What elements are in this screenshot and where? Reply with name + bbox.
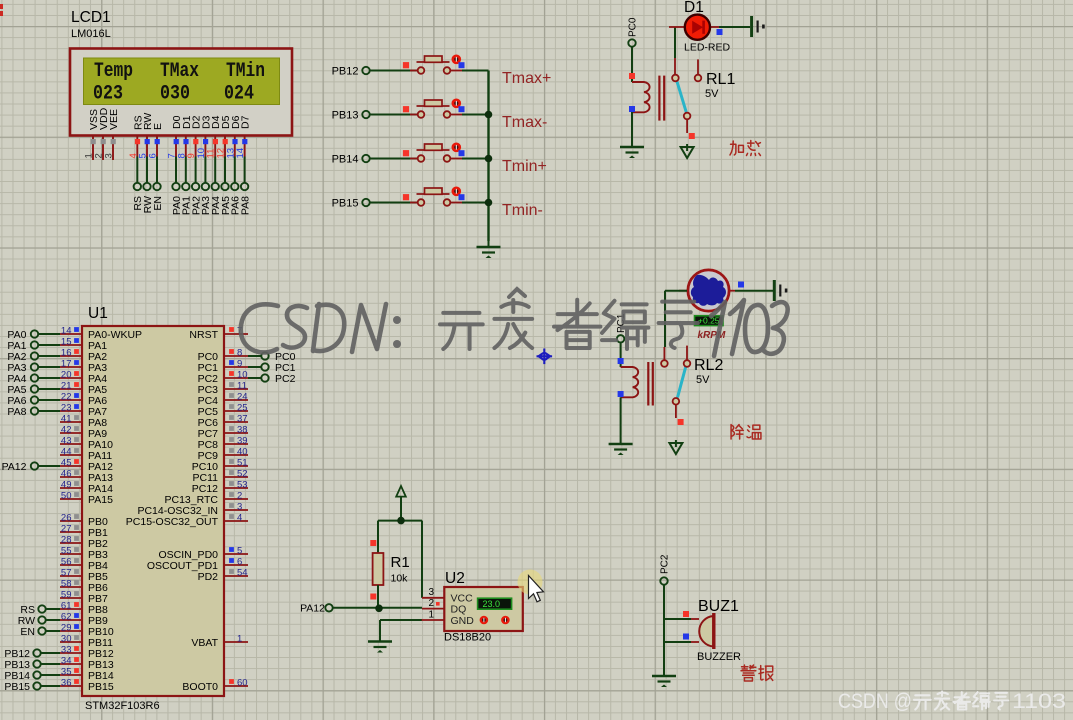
svg-text:24: 24	[237, 392, 248, 403]
svg-text:2: 2	[428, 598, 434, 609]
U1 pin 52 PC11 (right)	[193, 469, 249, 484]
motor rpm display	[695, 316, 724, 326]
svg-text:25: 25	[237, 403, 248, 414]
U1 pin 27 PB1 (left)	[60, 524, 108, 539]
U1 pin 51 PC10 (right)	[192, 458, 248, 473]
U1 pin 45 PA12 (left)	[60, 458, 113, 473]
origin marker	[537, 349, 553, 365]
svg-text:22: 22	[61, 392, 72, 403]
svg-text:030: 030	[160, 83, 190, 106]
svg-text:PD2: PD2	[198, 571, 219, 583]
U1 pin 5 OSCIN_PD0 (right)	[158, 546, 248, 561]
terminal PB15	[4, 681, 60, 693]
LCD pin 8 D1	[176, 115, 193, 215]
svg-text:PA8: PA8	[7, 406, 26, 418]
svg-text:57: 57	[61, 568, 72, 579]
ground (buttons)	[477, 241, 501, 258]
terminal PA6	[7, 395, 60, 407]
svg-text:3: 3	[104, 153, 115, 158]
svg-text:PC2: PC2	[275, 373, 296, 385]
U1 pin 3 PC14-OSC32_IN (right)	[137, 502, 248, 517]
wire to U2 VCC	[421, 521, 423, 598]
svg-text:46: 46	[61, 469, 72, 480]
LCD pin 2 VDD	[94, 107, 111, 160]
U1 pin 15 PA1 (left)	[60, 337, 107, 352]
LCD LCD1 LM016L body	[70, 49, 292, 136]
wire motor right to power	[735, 290, 773, 292]
label jiang-wen (cooling)	[731, 425, 743, 439]
U1 pin 21 PA5 (left)	[60, 381, 107, 396]
U1 pin 23 PA7 (left)	[60, 403, 107, 418]
svg-text:4: 4	[237, 513, 242, 524]
svg-text:Tmin+: Tmin+	[502, 158, 547, 175]
terminal PC0 (right of U1)	[248, 351, 296, 363]
push button PB14 (Tmin+)	[332, 143, 489, 166]
svg-text:DS18B20: DS18B20	[444, 632, 491, 644]
U1 pin 33 PB12 (left)	[60, 645, 114, 660]
svg-text:2: 2	[237, 491, 242, 502]
svg-text:5V: 5V	[696, 374, 710, 386]
left edge pin marks	[0, 4, 3, 9]
power rail (motor)	[774, 280, 787, 301]
svg-text:RL2: RL2	[694, 357, 723, 374]
LCD pin 12 D5	[216, 115, 233, 215]
svg-text:61: 61	[61, 601, 72, 612]
svg-text:56: 56	[61, 557, 72, 568]
LCD screen	[84, 58, 280, 105]
svg-text:TMin: TMin	[226, 60, 265, 83]
terminal PA12	[2, 461, 60, 473]
output arrow (RL1, heater)	[681, 144, 694, 158]
U1 pin 34 PB13 (left)	[60, 656, 114, 671]
svg-text:1: 1	[237, 634, 242, 645]
svg-text:8: 8	[237, 348, 242, 359]
svg-text:PA8: PA8	[239, 196, 251, 215]
U1 pin 22 PA6 (left)	[60, 392, 107, 407]
svg-text:BUZ1: BUZ1	[698, 598, 739, 615]
watermark CSDN handwriting	[241, 289, 788, 356]
U1 pin 16 PA2 (left)	[60, 348, 107, 363]
svg-text:kRPM: kRPM	[698, 330, 726, 341]
svg-text:27: 27	[61, 524, 72, 535]
svg-text:+0.25: +0.25	[698, 316, 720, 326]
svg-text:1103: 1103	[1012, 690, 1066, 713]
LCD pin 13 D6	[225, 115, 242, 215]
svg-text:45: 45	[61, 458, 72, 469]
svg-text:52: 52	[237, 469, 248, 480]
U1 pin 4 PC15-OSC32_OUT (right)	[126, 513, 248, 528]
svg-text:5: 5	[237, 546, 242, 557]
U1 pin 20 PA4 (left)	[60, 370, 107, 385]
junction node Tmin-	[485, 199, 493, 207]
svg-text:38: 38	[237, 425, 248, 436]
svg-text:62: 62	[61, 612, 72, 623]
svg-text:U2: U2	[445, 570, 465, 587]
U1 pin 30 PB11 (left)	[60, 634, 113, 649]
LCD pin 14 D7	[235, 115, 252, 215]
svg-text:15: 15	[61, 337, 72, 348]
label jia-re (heating)	[730, 141, 743, 155]
button common bus wire	[487, 71, 489, 242]
mouse cursor	[529, 576, 544, 602]
svg-text:14: 14	[61, 326, 72, 337]
terminal PA8	[7, 406, 60, 418]
U1 pin 25 PC5 (right)	[198, 403, 248, 418]
ground (U2)	[368, 636, 392, 653]
power arrow (pull-up supply)	[396, 486, 406, 521]
svg-text:35: 35	[61, 667, 72, 678]
svg-text:U1: U1	[88, 305, 108, 322]
LCD pin 4 RS	[128, 115, 145, 210]
svg-text:Tmin-: Tmin-	[502, 202, 543, 219]
svg-text:5V: 5V	[705, 88, 719, 100]
terminal PA5	[7, 384, 60, 396]
motor (fan)	[679, 270, 735, 311]
svg-text:28: 28	[61, 535, 72, 546]
wire motor left to RL2	[665, 290, 687, 292]
push button PB13 (Tmax-)	[332, 99, 489, 122]
U1 pin 36 PB15 (left)	[60, 678, 114, 693]
power rail (D1)	[752, 16, 765, 37]
svg-text:29: 29	[61, 623, 72, 634]
svg-text:11: 11	[237, 381, 247, 392]
push button PB15 (Tmin-)	[332, 187, 489, 210]
svg-text:26: 26	[61, 513, 72, 524]
svg-text:37: 37	[237, 414, 248, 425]
svg-text:10: 10	[237, 370, 248, 381]
svg-text:E: E	[152, 123, 164, 130]
svg-text:LCD1: LCD1	[71, 9, 111, 26]
junction node (R1/DQ)	[375, 605, 383, 613]
LCD pin 10 D3	[196, 115, 213, 215]
svg-text:LM016L: LM016L	[71, 28, 111, 40]
svg-text:3: 3	[237, 502, 242, 513]
svg-text:RL1: RL1	[706, 71, 735, 88]
terminal PC2 (right of U1)	[248, 373, 296, 385]
terminal PB14	[4, 670, 60, 682]
U1 pin 7 NRST (right)	[189, 326, 248, 341]
terminal PB13	[4, 659, 60, 671]
LCD pin 1 VSS	[84, 109, 101, 160]
svg-text:PB14: PB14	[332, 154, 359, 166]
svg-text:44: 44	[61, 447, 72, 458]
terminal EN	[20, 626, 60, 638]
push button PB12 (Tmax+)	[332, 55, 489, 78]
svg-text:DQ: DQ	[451, 604, 467, 616]
svg-text:16: 16	[61, 348, 72, 359]
svg-text:PA15: PA15	[88, 494, 113, 506]
wire LED to power	[719, 26, 750, 28]
svg-text:023: 023	[93, 83, 123, 106]
U1 pin 14 PA0-WKUP (left)	[60, 326, 142, 341]
buzzer BUZ1	[664, 611, 714, 649]
svg-text:EN: EN	[20, 626, 35, 638]
svg-text:PB12: PB12	[332, 66, 359, 78]
U1 pin 50 PA15 (left)	[60, 491, 113, 506]
svg-text:PB15: PB15	[88, 681, 114, 693]
svg-text:R1: R1	[391, 554, 410, 571]
terminal PC1 (RL2 coil)	[616, 313, 627, 342]
terminal PA3	[7, 362, 60, 374]
svg-text:21: 21	[61, 381, 72, 392]
relay RL2 switch	[661, 346, 690, 425]
svg-text:9: 9	[237, 359, 242, 370]
svg-text:30: 30	[61, 634, 72, 645]
svg-text:59: 59	[61, 590, 72, 601]
op-chip U1 STM32F103R6 body	[82, 326, 224, 696]
svg-text:D7: D7	[240, 115, 252, 129]
U1 pin 1 VBAT (right)	[191, 634, 248, 649]
relay RL1 coil	[629, 47, 664, 141]
U1 pin 43 PA10 (left)	[60, 436, 113, 451]
svg-text:STM32F103R6: STM32F103R6	[85, 700, 160, 712]
U1 pin 37 PC6 (right)	[198, 414, 248, 429]
terminal RS	[20, 604, 60, 616]
terminal PA1	[7, 340, 60, 352]
U1 pin 61 PB8 (left)	[60, 601, 108, 616]
svg-text:BOOT0: BOOT0	[182, 681, 218, 693]
svg-text:3: 3	[428, 587, 434, 598]
terminal PC1 (right of U1)	[248, 362, 296, 374]
svg-text:NRST: NRST	[189, 329, 218, 341]
svg-text:Temp: Temp	[94, 60, 133, 83]
svg-text:PA12: PA12	[2, 461, 27, 473]
U1 pin 9 PC1 (right)	[198, 359, 248, 374]
ground (RL2 coil)	[609, 438, 633, 455]
svg-text:GND: GND	[451, 615, 475, 627]
U1 pin 41 PA8 (left)	[60, 414, 107, 429]
svg-text:53: 53	[237, 480, 248, 491]
svg-text:23.0: 23.0	[482, 599, 500, 609]
junction node (supply)	[378, 520, 422, 522]
terminal PC0 (RL1 coil)	[628, 17, 639, 47]
ground (buzzer)	[652, 670, 676, 687]
svg-text:PB15: PB15	[332, 198, 359, 210]
svg-text:33: 33	[61, 645, 72, 656]
U1 pin 55 PB3 (left)	[60, 546, 108, 561]
U1 pin 28 PB2 (left)	[60, 535, 108, 550]
wire PA12 to U2 DQ	[333, 607, 422, 609]
resistor R1 10k	[370, 521, 383, 609]
svg-text:D1: D1	[684, 0, 704, 16]
U1 pin 46 PA13 (left)	[60, 469, 113, 484]
terminal PA0	[7, 329, 60, 341]
svg-text:VEE: VEE	[108, 109, 120, 130]
svg-text:58: 58	[61, 579, 72, 590]
ground (RL1 coil)	[620, 141, 644, 158]
svg-text:PC15-OSC32_OUT: PC15-OSC32_OUT	[126, 516, 219, 528]
junction node Tmax-	[485, 111, 493, 119]
U1 pin 17 PA3 (left)	[60, 359, 107, 374]
label jing-bao (alarm)	[741, 665, 756, 681]
svg-text:36: 36	[61, 678, 72, 689]
svg-text:PB15: PB15	[4, 681, 30, 693]
terminal PA12 (DQ)	[300, 603, 333, 615]
svg-text:BUZZER: BUZZER	[697, 651, 741, 663]
svg-text:Tmax+: Tmax+	[502, 70, 551, 87]
junction node Tmin+	[485, 155, 493, 163]
U1 pin 38 PC7 (right)	[198, 425, 248, 440]
svg-text:1: 1	[428, 610, 434, 621]
U1 pin 59 PB7 (left)	[60, 590, 108, 605]
relay RL1 switch	[672, 58, 701, 139]
svg-text:VBAT: VBAT	[191, 637, 218, 649]
LCD pin 6 E	[148, 123, 165, 211]
svg-text:50: 50	[61, 491, 72, 502]
svg-text:40: 40	[237, 447, 248, 458]
terminal PA2	[7, 351, 60, 363]
svg-text:024: 024	[224, 83, 254, 106]
svg-text:LED-RED: LED-RED	[684, 42, 731, 54]
svg-text:Tmax-: Tmax-	[502, 114, 547, 131]
U1 pin 29 PB10 (left)	[60, 623, 114, 638]
LCD pin 3 VEE	[104, 109, 121, 160]
watermark CSDN bottom-right	[838, 690, 1066, 713]
U1 pin 53 PC12 (right)	[192, 480, 248, 495]
svg-text:6: 6	[237, 557, 242, 568]
wire U2 GND to ground	[380, 619, 422, 621]
svg-text:34: 34	[61, 656, 72, 667]
terminal PA4	[7, 373, 60, 385]
svg-text:60: 60	[237, 678, 248, 689]
svg-text:TMax: TMax	[160, 60, 199, 83]
U1 pin 40 PC9 (right)	[198, 447, 248, 462]
svg-text:CSDN @: CSDN @	[838, 690, 912, 713]
svg-text:PB13: PB13	[332, 110, 359, 122]
output arrow (RL2, cooler)	[669, 440, 682, 454]
wire PC2 down	[663, 585, 665, 670]
terminal RW	[18, 615, 60, 627]
LCD pin 7 D0	[167, 115, 184, 215]
relay RL2 coil	[618, 343, 653, 438]
svg-text:17: 17	[61, 359, 72, 370]
LCD pin 11 D4	[206, 115, 223, 215]
terminal PB12	[4, 648, 60, 660]
svg-text:51: 51	[237, 458, 248, 469]
U1 pin 24 PC4 (right)	[198, 392, 248, 407]
U1 pin 10 PC2 (right)	[198, 370, 248, 385]
U1 pin 54 PD2 (right)	[198, 568, 248, 583]
U1 pin 57 PB5 (left)	[60, 568, 108, 583]
svg-text:55: 55	[61, 546, 72, 557]
svg-text:54: 54	[237, 568, 248, 579]
wire LED left to relay RL1 common	[674, 27, 676, 58]
svg-text:41: 41	[61, 414, 72, 425]
svg-text:23: 23	[61, 403, 72, 414]
terminal PC2 (buzzer)	[660, 554, 671, 585]
svg-text:42: 42	[61, 425, 72, 436]
LCD pin 9 D2	[186, 115, 203, 215]
svg-text:PA12: PA12	[300, 603, 325, 615]
LED D1	[669, 15, 731, 54]
svg-text:39: 39	[237, 436, 248, 447]
U1 pin 35 PB14 (left)	[60, 667, 114, 682]
U1 pin 42 PA9 (left)	[60, 425, 107, 440]
svg-text:PC2: PC2	[660, 554, 671, 574]
svg-text:10k: 10k	[391, 573, 409, 585]
U1 pin 58 PB6 (left)	[60, 579, 108, 594]
mouse cursor highlight	[518, 570, 543, 595]
U1 pin 56 PB4 (left)	[60, 557, 108, 572]
U1 pin 26 PB0 (left)	[60, 513, 108, 528]
U1 pin 8 PC0 (right)	[198, 348, 248, 363]
U1 pin 62 PB9 (left)	[60, 612, 108, 627]
U1 pin 49 PA14 (left)	[60, 480, 113, 495]
U1 pin 11 PC3 (right)	[198, 381, 248, 396]
U1 pin 39 PC8 (right)	[198, 436, 248, 451]
U1 pin 2 PC13_RTC (right)	[165, 491, 249, 506]
U1 pin 60 BOOT0 (right)	[182, 678, 248, 693]
svg-text:EN: EN	[152, 196, 164, 211]
svg-text:43: 43	[61, 436, 72, 447]
svg-text:49: 49	[61, 480, 72, 491]
svg-text:20: 20	[61, 370, 72, 381]
U1 pin 6 OSCOUT_PD1 (right)	[147, 557, 248, 572]
U1 pin 44 PA11 (left)	[60, 447, 112, 462]
svg-text:PC0: PC0	[628, 17, 639, 37]
LCD pin 5 RW	[138, 113, 155, 214]
